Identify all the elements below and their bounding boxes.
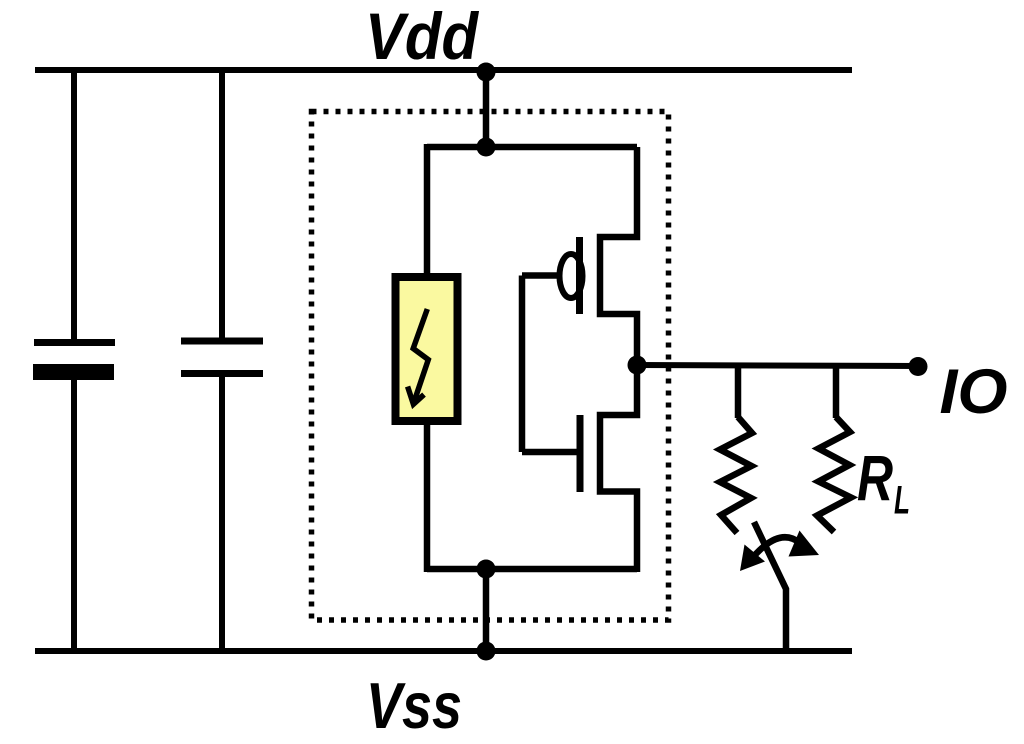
junction dot internal top node — [477, 138, 496, 157]
NMOS Q2 drain/source path — [600, 365, 637, 572]
junction dot on Vdd rail — [477, 63, 496, 82]
output node dot — [628, 356, 647, 375]
Vss rail (bottom wire) — [35, 648, 852, 654]
battery V1 thick bottom plate — [33, 364, 114, 380]
wire Vdd rail to internal top node — [483, 70, 490, 147]
ESD clamp box (yellow) — [396, 277, 458, 421]
svg-text:Vdd: Vdd — [365, 0, 480, 73]
battery V1 top lead wire — [71, 70, 77, 340]
capacitor C1 top lead wire — [219, 70, 225, 339]
svg-text:IO: IO — [940, 357, 1008, 427]
gate bus wire — [519, 276, 526, 453]
capacitor C1 top plate — [181, 338, 263, 345]
PMOS Q1 gate bar — [576, 237, 583, 314]
dashed IC boundary box — [312, 112, 669, 621]
resistor R1 lead wire — [735, 365, 742, 418]
wire internal bottom node to Vss rail — [483, 569, 490, 651]
lightning bolt symbol — [408, 309, 429, 404]
IO terminal dot — [909, 357, 928, 376]
resistor R1 zigzag — [720, 417, 752, 533]
resistor R2 lead wire — [833, 365, 840, 418]
wire top node to ESD clamp — [424, 144, 431, 275]
selector lever wire — [754, 522, 786, 651]
PMOS gate wire — [522, 272, 560, 279]
svg-text:Vss: Vss — [366, 669, 462, 742]
battery V1 top plate — [34, 339, 115, 346]
PMOS Q1 gate bubble — [560, 254, 583, 298]
junction dot on Vss rail — [477, 642, 496, 661]
internal top supply wire — [427, 144, 637, 151]
internal bottom supply wire — [427, 566, 637, 573]
curved selection arrow — [740, 531, 819, 572]
PMOS Q1 source/drain path — [600, 147, 637, 365]
svg-text:L: L — [894, 479, 910, 523]
wire ESD clamp to internal bottom node — [424, 425, 431, 572]
svg-text:R: R — [857, 442, 893, 514]
capacitor C1 bottom lead wire — [219, 375, 225, 651]
resistor R2 zigzag — [817, 417, 851, 532]
NMOS Q2 gate bar — [577, 415, 584, 492]
battery V1 bottom lead wire — [71, 378, 77, 651]
capacitor C1 bottom plate — [181, 370, 263, 377]
Vdd rail (top wire) — [35, 67, 852, 73]
junction dot internal bottom node — [477, 560, 496, 579]
NMOS gate wire — [522, 449, 577, 456]
IO wire — [637, 365, 918, 366]
